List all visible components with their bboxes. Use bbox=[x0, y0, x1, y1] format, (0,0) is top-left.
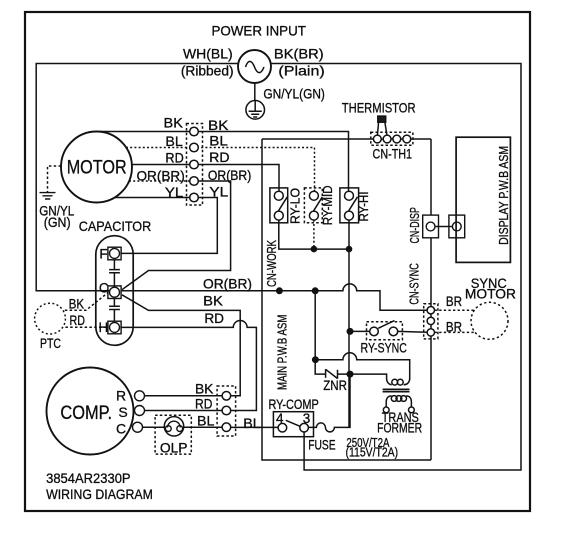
svg-text:OLP: OLP bbox=[160, 440, 188, 455]
svg-text:COMP.: COMP. bbox=[60, 403, 112, 424]
svg-text:BK: BK bbox=[195, 381, 214, 397]
svg-text:GN/YL(GN): GN/YL(GN) bbox=[263, 86, 325, 101]
svg-text:RD: RD bbox=[195, 396, 212, 412]
svg-text:RY-SYNC: RY-SYNC bbox=[361, 340, 408, 355]
svg-text:3854AR2330P: 3854AR2330P bbox=[46, 470, 131, 486]
svg-text:RY-COMP: RY-COMP bbox=[268, 397, 318, 412]
svg-text:CAPACITOR: CAPACITOR bbox=[79, 218, 152, 234]
svg-text:FORMER: FORMER bbox=[377, 420, 422, 435]
svg-text:RD: RD bbox=[70, 313, 86, 328]
svg-text:S: S bbox=[118, 404, 127, 420]
svg-text:DISPLAY P.W.B ASM: DISPLAY P.W.B ASM bbox=[497, 146, 511, 245]
svg-text:MOTOR: MOTOR bbox=[67, 157, 127, 178]
svg-text:BL: BL bbox=[165, 133, 183, 149]
svg-text:BK: BK bbox=[164, 115, 184, 131]
svg-text:C: C bbox=[99, 280, 109, 295]
svg-text:YL: YL bbox=[165, 184, 184, 200]
svg-text:RY-HI: RY-HI bbox=[357, 191, 371, 221]
svg-text:POWER INPUT: POWER INPUT bbox=[211, 22, 306, 38]
svg-text:BL: BL bbox=[243, 415, 261, 431]
svg-text:YL: YL bbox=[209, 184, 228, 200]
svg-text:WH(BL): WH(BL) bbox=[183, 46, 233, 62]
svg-text:OR(BR): OR(BR) bbox=[136, 168, 184, 184]
svg-text:CN-WORK: CN-WORK bbox=[265, 239, 279, 287]
svg-text:BL: BL bbox=[197, 413, 215, 429]
svg-text:BK(BR): BK(BR) bbox=[274, 46, 324, 62]
svg-text:BR: BR bbox=[446, 318, 462, 334]
svg-text:CN-DISP: CN-DISP bbox=[408, 207, 422, 243]
svg-text:OR(BR): OR(BR) bbox=[203, 276, 252, 292]
svg-text:C: C bbox=[116, 421, 126, 437]
svg-text:4: 4 bbox=[276, 411, 284, 426]
svg-text:(GN): (GN) bbox=[44, 215, 71, 230]
svg-text:RY-LO: RY-LO bbox=[289, 188, 303, 224]
svg-text:CN-TH1: CN-TH1 bbox=[373, 146, 413, 161]
svg-text:H: H bbox=[99, 320, 109, 335]
svg-text:CN-SYNC: CN-SYNC bbox=[407, 263, 421, 304]
svg-text:WIRING DIAGRAM: WIRING DIAGRAM bbox=[46, 486, 153, 502]
svg-text:F: F bbox=[99, 247, 107, 262]
svg-text:BK: BK bbox=[203, 292, 223, 308]
svg-text:(115V/T2A): (115V/T2A) bbox=[346, 446, 399, 460]
svg-text:MOTOR: MOTOR bbox=[465, 287, 516, 302]
svg-text:3: 3 bbox=[303, 411, 311, 426]
svg-text:RY-MID: RY-MID bbox=[321, 185, 335, 225]
svg-text:RD: RD bbox=[209, 149, 229, 165]
svg-text:(Plain): (Plain) bbox=[278, 62, 324, 78]
svg-text:BK: BK bbox=[208, 117, 229, 133]
svg-text:THERMISTOR: THERMISTOR bbox=[342, 100, 416, 116]
svg-text:MAIN P.W.B ASM: MAIN P.W.B ASM bbox=[275, 315, 289, 390]
svg-text:R: R bbox=[116, 388, 126, 404]
svg-text:BK: BK bbox=[69, 297, 85, 312]
svg-text:RD: RD bbox=[165, 150, 183, 166]
svg-text:(Ribbed): (Ribbed) bbox=[181, 62, 234, 78]
svg-text:RD: RD bbox=[204, 310, 224, 326]
svg-text:ZNR: ZNR bbox=[323, 378, 347, 393]
svg-text:OR(BR): OR(BR) bbox=[208, 167, 251, 183]
svg-text:BR: BR bbox=[446, 293, 462, 309]
svg-text:PTC: PTC bbox=[40, 336, 61, 351]
svg-text:BL: BL bbox=[209, 133, 228, 149]
svg-text:FUSE: FUSE bbox=[308, 438, 335, 453]
